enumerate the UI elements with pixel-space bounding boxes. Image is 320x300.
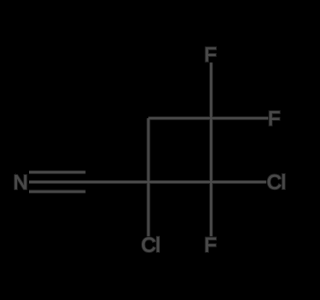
label core glyphs: [15, 48, 284, 252]
bond core strokes: [29, 63, 268, 237]
soft halo underlay for labels: [15, 48, 284, 252]
soft halo underlay for bonds: [29, 63, 268, 237]
